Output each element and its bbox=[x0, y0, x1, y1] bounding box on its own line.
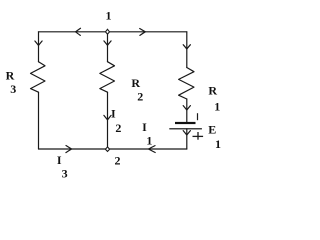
svg-text:I: I bbox=[57, 153, 62, 167]
svg-text:1: 1 bbox=[106, 9, 112, 23]
tick mark right of battery bbox=[197, 113, 199, 120]
arrow right on top wire bbox=[140, 29, 146, 36]
svg-text:2: 2 bbox=[115, 153, 121, 167]
arrow down on right branch bbox=[183, 45, 190, 49]
arrow down above battery bbox=[183, 106, 190, 110]
svg-text:3: 3 bbox=[62, 166, 68, 180]
wire left branch lower bbox=[38, 92, 40, 149]
svg-text:3: 3 bbox=[10, 82, 16, 96]
wire middle branch lower bbox=[107, 92, 109, 149]
battery E1 top plate bbox=[175, 122, 196, 124]
arrow down below node 1 bbox=[104, 41, 111, 45]
wire top bbox=[39, 31, 187, 33]
wire left branch upper bbox=[38, 32, 40, 62]
arrow left I1 on bottom wire bbox=[149, 146, 156, 153]
svg-text:E: E bbox=[208, 122, 216, 136]
battery plus sign bbox=[193, 132, 204, 140]
wire right branch lower bbox=[186, 129, 188, 149]
resistor R1 bbox=[179, 68, 194, 100]
svg-text:1: 1 bbox=[215, 137, 221, 151]
arrow down I2 on middle branch bbox=[104, 115, 111, 120]
svg-text:2: 2 bbox=[137, 89, 143, 103]
arrow down below battery bbox=[183, 131, 190, 135]
wire right branch upper bbox=[186, 32, 188, 68]
arrow down on left branch bbox=[35, 41, 42, 45]
wire middle branch upper bbox=[107, 32, 109, 62]
svg-text:I: I bbox=[111, 106, 116, 120]
svg-text:I: I bbox=[142, 120, 147, 134]
resistor R2 bbox=[100, 62, 115, 92]
svg-text:1: 1 bbox=[214, 99, 220, 113]
svg-text:2: 2 bbox=[115, 121, 121, 135]
node 2 junction diamond bbox=[105, 147, 109, 152]
node 1 junction diamond bbox=[106, 29, 110, 34]
svg-text:R: R bbox=[208, 83, 217, 97]
svg-text:R: R bbox=[131, 76, 140, 90]
battery E1 bottom plate bbox=[169, 128, 202, 129]
arrow right I3 on bottom wire bbox=[66, 146, 72, 153]
svg-text:1: 1 bbox=[146, 134, 152, 148]
wire right branch middle bbox=[186, 99, 188, 122]
resistor R3 bbox=[31, 62, 46, 92]
arrow left on top wire bbox=[76, 28, 81, 35]
wire bottom bbox=[39, 148, 187, 150]
svg-text:R: R bbox=[6, 68, 15, 82]
